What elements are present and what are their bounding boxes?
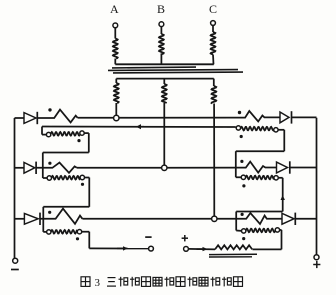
control terminal plus: [184, 247, 189, 252]
polarity dot: [81, 183, 84, 186]
wire: [43, 152, 89, 154]
diode D3: [24, 213, 38, 224]
terminal A: [113, 23, 118, 28]
control terminal minus: [149, 246, 154, 251]
ac winding zigzag R1: [237, 111, 280, 122]
control winding L1: [46, 132, 50, 136]
node c: [212, 216, 217, 221]
wire: [78, 117, 114, 119]
current arrow: [123, 246, 128, 250]
wire: [253, 248, 282, 250]
svg-text:C: C: [209, 2, 217, 16]
svg-text:3: 3: [95, 277, 101, 289]
primary winding A: [113, 39, 118, 59]
negative bus: [14, 118, 16, 258]
wire: [167, 167, 241, 169]
terminal minus: [13, 258, 18, 263]
wire: [41, 127, 43, 135]
wire: [42, 207, 44, 232]
wire: [85, 177, 90, 179]
polarity dot: [238, 111, 241, 114]
secondary winding a: [115, 79, 117, 83]
polarity dot: [242, 237, 245, 240]
wire primary bus: [115, 63, 214, 65]
wire: [188, 248, 215, 251]
wire: [292, 116, 317, 118]
wire: [278, 129, 284, 131]
wire: [114, 28, 116, 39]
current arrow: [281, 195, 285, 200]
wire: [82, 218, 211, 220]
terminal C: [211, 21, 216, 26]
control winding R3: [242, 229, 246, 233]
svg-text:A: A: [110, 2, 119, 16]
primary winding B: [159, 34, 164, 55]
reactor core: [209, 253, 257, 255]
svg-text:B: B: [157, 2, 165, 16]
polarity dot: [242, 184, 245, 187]
polarity dot: [48, 108, 51, 111]
polarity dot: [48, 211, 51, 214]
primary winding C: [211, 32, 216, 55]
control winding R2: [241, 175, 245, 179]
secondary winding c: [213, 79, 215, 86]
wire: [236, 150, 284, 152]
label plus: [313, 264, 320, 266]
ac winding zigzag R2: [241, 162, 277, 173]
node a: [114, 115, 119, 120]
control winding L2: [47, 176, 51, 180]
control winding L3: [47, 230, 51, 234]
diode D4: [280, 112, 289, 123]
wire: [280, 229, 282, 231]
wire: [290, 167, 317, 169]
wire: [15, 218, 25, 220]
wire: [77, 167, 162, 169]
diode D2: [24, 162, 35, 173]
transformer core: [112, 66, 196, 69]
wire: [84, 132, 89, 134]
wire: [15, 117, 25, 119]
ac winding zigzag R3: [242, 213, 282, 224]
current arrow: [136, 124, 141, 129]
wire: [278, 177, 282, 179]
wire: [15, 167, 25, 169]
polarity dot: [240, 160, 243, 163]
ac winding zigzag L3: [40, 209, 82, 224]
current arrow: [203, 247, 208, 251]
terminal B: [159, 22, 164, 27]
ac winding zigzag L2: [36, 163, 77, 173]
wire: [43, 206, 89, 208]
polarity dot: [240, 135, 243, 138]
diode D6: [282, 213, 294, 224]
wire: [82, 231, 90, 233]
wire: [295, 218, 316, 220]
ac winding zigzag L1: [37, 110, 77, 123]
secondary winding b: [163, 79, 165, 84]
diode D1: [24, 113, 36, 124]
wire: [114, 59, 116, 65]
wire: [89, 247, 148, 249]
polarity dot: [241, 213, 244, 216]
node b: [162, 165, 167, 170]
polarity dot: [77, 139, 80, 142]
wire: [119, 117, 237, 119]
wire: [236, 211, 283, 213]
wire secondary bus: [116, 78, 214, 80]
wire: [217, 218, 242, 220]
positive bus: [316, 118, 318, 255]
label minus: [11, 269, 19, 271]
wire: [235, 212, 237, 231]
caption 图3 三相桥自饱和电抗器接线图: [81, 277, 90, 287]
wire: [42, 153, 44, 179]
control winding R1: [236, 126, 240, 130]
smoothing reactor winding: [215, 245, 252, 249]
wire: [235, 151, 237, 177]
polarity dot: [48, 162, 51, 165]
polarity dot: [76, 237, 79, 240]
control wire top: [42, 126, 236, 129]
diode D5: [277, 162, 288, 173]
label plus: [182, 237, 188, 239]
terminal plus: [314, 255, 319, 260]
label minus: [145, 236, 151, 238]
